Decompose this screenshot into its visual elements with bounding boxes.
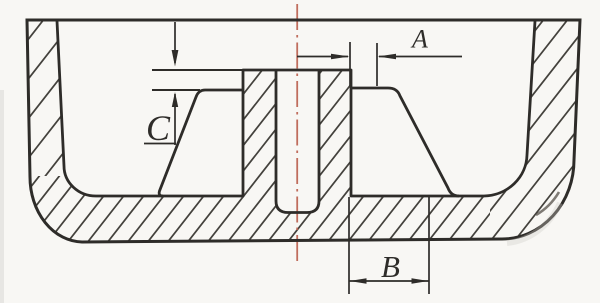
dimension C lower arrow line [174,94,176,145]
red dash-dot centerline of the hole [296,4,298,262]
cavity profile: inner wall edges, floor line and central boss [57,21,535,196]
dimension B left extension line [348,197,350,294]
section hatching, left side wall (sparse) [0,0,462,303]
dimension B right extension line [428,197,430,294]
dimension C leader underline [144,143,176,145]
heavy ink blob inside bottom-right corner band (scan artifact) [536,192,559,215]
right rib with draft (unsectioned) [351,88,459,196]
dimension A left arrow line from centerline [297,56,348,58]
grey halo outside bottom-right corner (scan artifact) [507,203,560,243]
left rib with draft (unsectioned) [159,90,243,196]
dimension C extension line, rib top level [152,89,200,91]
dimension B left arrowhead [350,278,367,284]
dimension A left arrowhead [331,54,350,59]
dimension A second extension line [376,43,378,86]
scan shading streak at left paper edge [0,90,4,303]
dimension C upper arrow line [174,22,176,63]
svg-text:C: C [146,108,171,148]
outer outline of the casting (rim, side walls, rounded bottom) [27,20,580,242]
blind hole white interior [276,70,319,213]
dimension A extension line at boss edge [349,42,351,86]
dimension B dimension line [349,280,429,282]
svg-text:B: B [381,249,400,284]
dimension A right arrow line [379,56,462,58]
dimension C lower arrowhead [172,92,178,107]
dimension C extension line, boss top level [152,69,243,71]
blind hole outline [276,70,319,213]
svg-text:A: A [410,25,428,54]
dimension C upper arrowhead [172,50,179,67]
dimension B right arrowhead [412,278,429,284]
dimension A right arrowhead [378,54,397,59]
section hatching, right side wall and corner (sparse) [250,0,600,303]
